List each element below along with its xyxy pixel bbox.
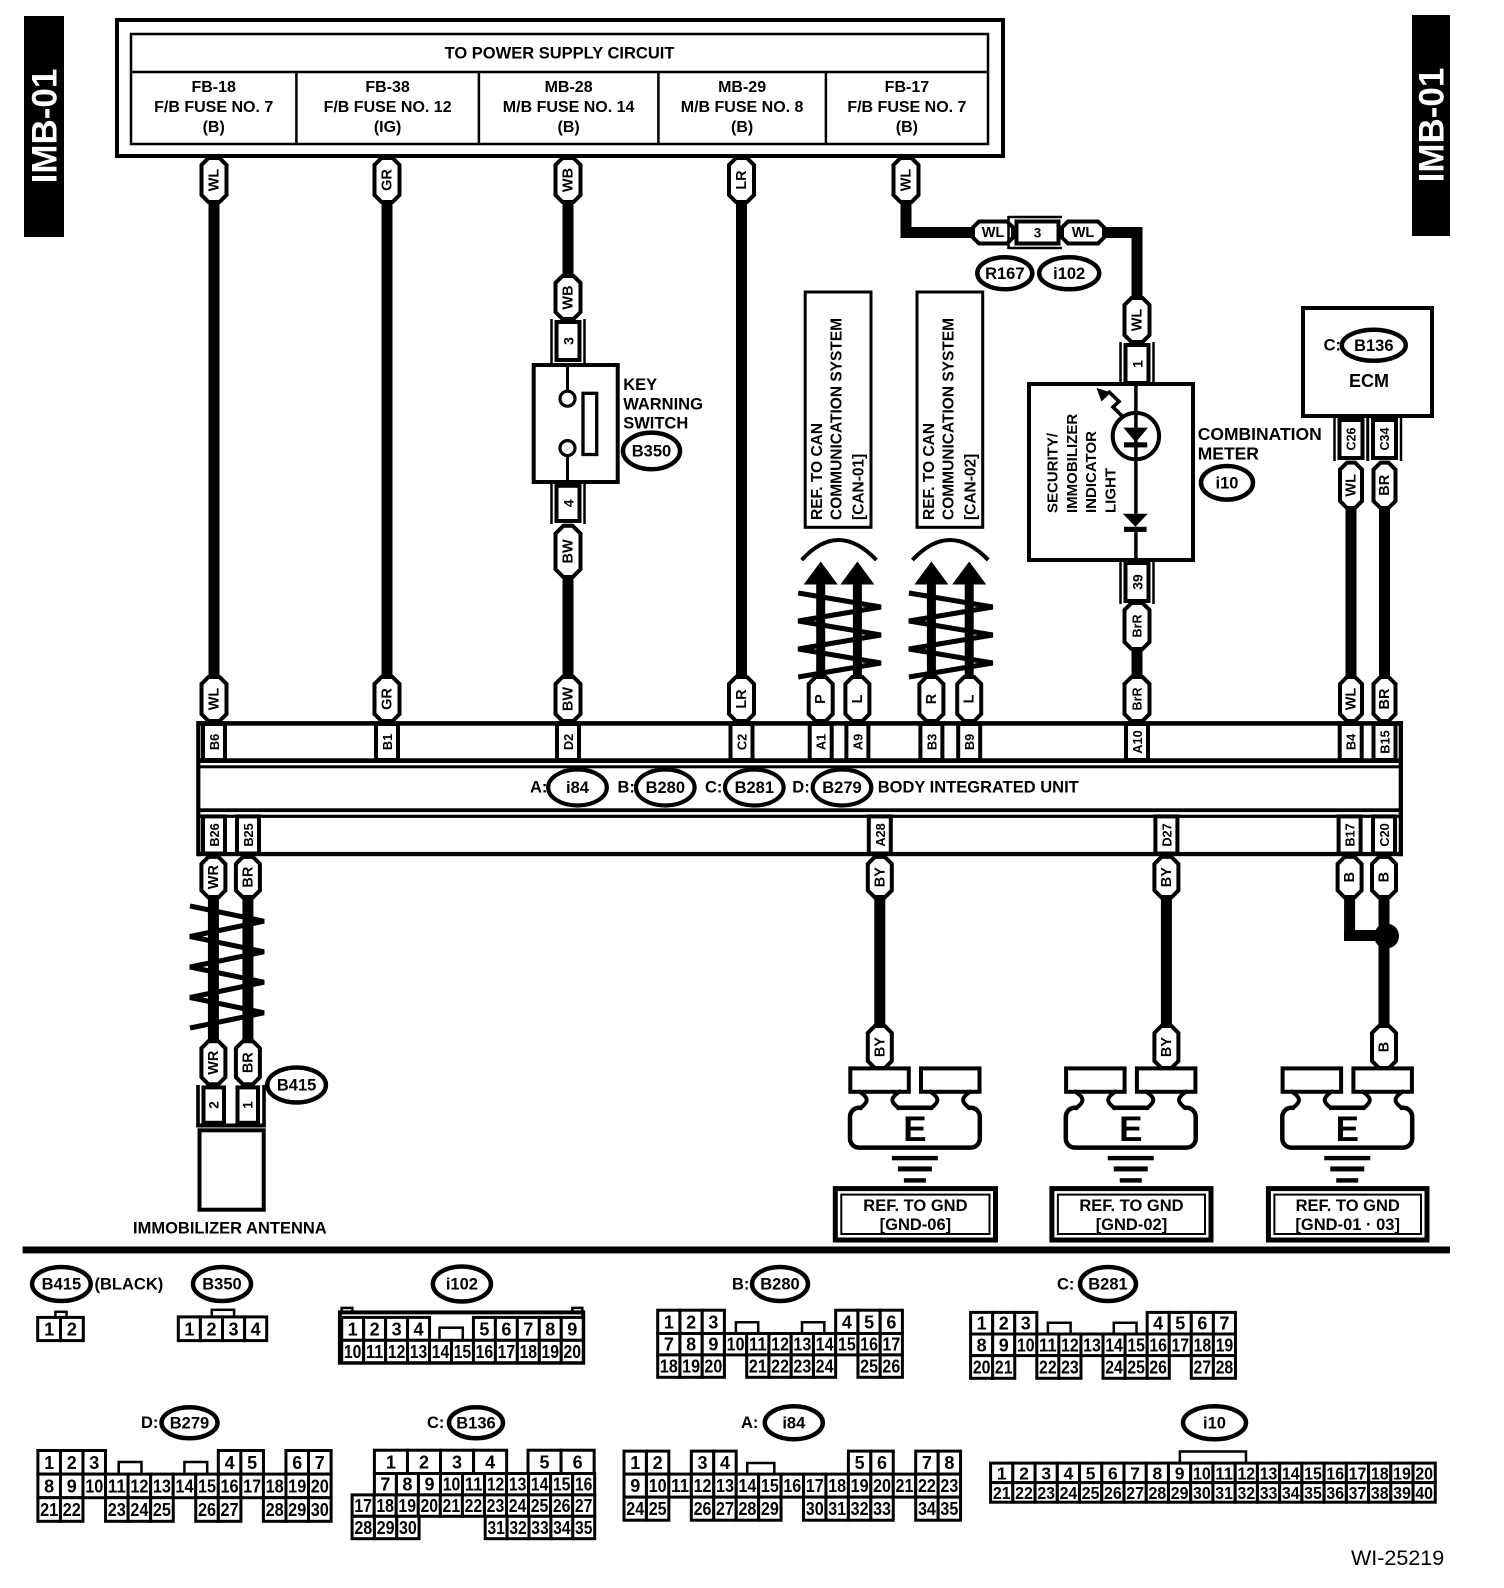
bus pin D27: [1155, 816, 1177, 853]
wire WL down to combination meter: [1132, 227, 1143, 300]
security/immobilizer indicator light box: [1029, 384, 1193, 560]
svg-text:7: 7: [1130, 1463, 1140, 1483]
ECM box: [1303, 308, 1432, 416]
svg-text:9: 9: [1175, 1463, 1185, 1483]
svg-text:IMB-01: IMB-01: [1413, 68, 1452, 183]
wire WB MB-28 to key warning switch: [563, 200, 574, 280]
svg-text:L: L: [850, 694, 866, 703]
ref to CAN box [CAN-01]: [805, 292, 871, 527]
svg-text:4: 4: [1064, 1463, 1074, 1483]
svg-text:SWITCH: SWITCH: [623, 415, 688, 433]
svg-text:10: 10: [344, 1342, 362, 1362]
svg-text:28: 28: [354, 1518, 372, 1538]
connector capsule WL above bus B6: [202, 677, 227, 721]
bus pin B6: [203, 724, 225, 760]
svg-text:[GND-01 · 03]: [GND-01 · 03]: [1295, 1216, 1400, 1234]
svg-text:5: 5: [1086, 1463, 1096, 1483]
svg-text:(B): (B): [203, 119, 225, 136]
svg-text:6: 6: [1197, 1314, 1207, 1334]
svg-text:B15: B15: [1378, 730, 1393, 753]
svg-text:39: 39: [1130, 574, 1146, 590]
svg-text:28: 28: [1149, 1483, 1167, 1503]
svg-text:(IG): (IG): [374, 119, 402, 136]
svg-text:4: 4: [251, 1319, 261, 1339]
bus pin B26: [203, 816, 225, 853]
twisted pair marker [CAN-01]: [798, 593, 881, 677]
svg-text:18: 18: [520, 1342, 538, 1362]
svg-text:30: 30: [399, 1518, 417, 1538]
svg-text:9: 9: [567, 1319, 577, 1339]
svg-text:3: 3: [89, 1453, 99, 1473]
connector B280 pin layout: [658, 1310, 680, 1333]
svg-text:26: 26: [198, 1500, 216, 1520]
svg-text:22: 22: [1039, 1357, 1057, 1377]
svg-text:8: 8: [944, 1453, 954, 1473]
svg-text:WL: WL: [899, 169, 915, 192]
svg-text:[GND-06]: [GND-06]: [880, 1216, 952, 1234]
wire WL FB-18 to body integrated unit: [209, 200, 220, 681]
svg-text:3: 3: [229, 1319, 239, 1339]
svg-text:5: 5: [540, 1452, 550, 1472]
connector capsule WR below bus: [201, 857, 225, 898]
svg-text:1: 1: [241, 1101, 256, 1109]
svg-text:14: 14: [175, 1476, 193, 1496]
connector oval B350: [623, 433, 680, 470]
svg-text:BY: BY: [872, 867, 888, 887]
svg-text:3: 3: [452, 1452, 462, 1472]
connector capsule L above bus (2): [845, 677, 869, 721]
arc above CAN arrows [CAN-02]: [912, 540, 988, 560]
svg-text:C2: C2: [735, 734, 750, 750]
svg-text:20: 20: [704, 1357, 722, 1377]
svg-text:11: 11: [671, 1476, 689, 1496]
wire LR MB-29 to body integrated unit: [736, 200, 747, 681]
svg-text:21: 21: [40, 1500, 58, 1520]
wire WL from inline connector to corner: [1102, 227, 1143, 238]
diode symbol lower: [1123, 514, 1148, 527]
ground symbol hatching: [1324, 1156, 1370, 1160]
LED flash arrow: [1108, 391, 1124, 418]
ground left tab: [1283, 1068, 1342, 1091]
svg-text:WL: WL: [207, 688, 223, 711]
svg-text:15: 15: [838, 1335, 856, 1355]
svg-text:7: 7: [523, 1319, 533, 1339]
svg-text:12: 12: [1237, 1463, 1255, 1483]
svg-text:i84: i84: [782, 1414, 806, 1432]
svg-text:1: 1: [348, 1319, 358, 1339]
svg-text:IMMOBILIZER ANTENNA: IMMOBILIZER ANTENNA: [133, 1220, 327, 1238]
svg-text:13: 13: [793, 1335, 811, 1355]
svg-text:29: 29: [1171, 1483, 1189, 1503]
svg-text:WL: WL: [207, 169, 223, 192]
svg-text:22: 22: [918, 1476, 936, 1496]
ground left tab: [1066, 1068, 1125, 1091]
svg-text:16: 16: [476, 1342, 494, 1362]
svg-text:14: 14: [816, 1335, 834, 1355]
svg-text:R167: R167: [985, 265, 1024, 283]
svg-text:B26: B26: [207, 823, 222, 846]
svg-text:1: 1: [664, 1312, 674, 1332]
svg-text:i10: i10: [1203, 1414, 1226, 1432]
svg-text:38: 38: [1371, 1483, 1389, 1503]
svg-text:1: 1: [977, 1314, 987, 1334]
svg-text:B350: B350: [632, 442, 671, 460]
svg-text:21: 21: [993, 1483, 1011, 1503]
ground right tab: [1353, 1068, 1412, 1091]
svg-text:3: 3: [1041, 1463, 1051, 1483]
wire B horizontal joining segment: [1344, 930, 1390, 941]
svg-text:6: 6: [292, 1453, 302, 1473]
svg-text:B4: B4: [1344, 733, 1359, 750]
svg-text:D:: D:: [141, 1414, 158, 1432]
pin 1 of immobilizer antenna: [238, 1087, 259, 1122]
svg-text:BODY INTEGRATED UNIT: BODY INTEGRATED UNIT: [878, 778, 1079, 796]
svg-text:25: 25: [531, 1496, 549, 1516]
connector capsule LR above bus C2: [729, 677, 754, 721]
connector capsule BY below bus: [868, 857, 892, 898]
svg-text:WI-25219: WI-25219: [1351, 1546, 1444, 1570]
inline connector capsule WL left of R167: [973, 222, 1013, 244]
svg-text:B25: B25: [241, 823, 256, 846]
svg-text:22: 22: [1015, 1483, 1033, 1503]
connector capsule L above bus (2): [957, 677, 981, 721]
svg-text:30: 30: [1193, 1483, 1211, 1503]
svg-text:5: 5: [864, 1312, 874, 1332]
svg-text:B17: B17: [1343, 823, 1358, 846]
svg-text:23: 23: [793, 1357, 811, 1377]
svg-text:BY: BY: [1159, 1037, 1175, 1057]
svg-text:F/B FUSE NO. 7: F/B FUSE NO. 7: [154, 99, 273, 116]
svg-text:BW: BW: [561, 687, 577, 711]
svg-text:3: 3: [708, 1312, 718, 1332]
svg-text:21: 21: [749, 1357, 767, 1377]
ref to CAN box [CAN-02]: [917, 292, 983, 527]
svg-text:GR: GR: [380, 688, 396, 710]
svg-text:16: 16: [783, 1476, 801, 1496]
svg-text:17: 17: [882, 1335, 900, 1355]
svg-text:15: 15: [761, 1476, 779, 1496]
svg-text:TO POWER SUPPLY CIRCUIT: TO POWER SUPPLY CIRCUIT: [445, 45, 675, 63]
svg-text:C:: C:: [705, 778, 722, 796]
svg-text:SECURITY/: SECURITY/: [1045, 432, 1062, 513]
connector capsule BW below switch: [556, 526, 581, 578]
svg-text:REF. TO CAN: REF. TO CAN: [921, 423, 938, 520]
svg-text:2: 2: [207, 1101, 222, 1109]
ground left tab: [850, 1068, 909, 1091]
connector capsule WL below ECM: [1340, 463, 1362, 508]
wire GR FB-38 to body integrated unit: [382, 200, 393, 681]
svg-text:31: 31: [1215, 1483, 1233, 1503]
svg-text:31: 31: [828, 1499, 846, 1519]
svg-text:25: 25: [649, 1499, 667, 1519]
page label banner IMB-01 left: [24, 16, 64, 237]
wire BY D27 to ground GND-02: [1161, 895, 1172, 1028]
wire BrR to body integrated unit: [1132, 647, 1143, 681]
svg-text:BR: BR: [1377, 474, 1393, 495]
svg-text:5: 5: [247, 1453, 257, 1473]
svg-text:25: 25: [153, 1500, 171, 1520]
switch contact lower: [560, 441, 575, 456]
connector capsule B below bus: [1372, 857, 1396, 898]
svg-text:26: 26: [1104, 1483, 1122, 1503]
svg-text:C:: C:: [427, 1414, 444, 1432]
bus pin A1: [810, 724, 832, 760]
svg-text:4: 4: [561, 499, 577, 507]
svg-text:27: 27: [1126, 1483, 1144, 1503]
svg-text:COMBINATION: COMBINATION: [1198, 424, 1322, 444]
svg-text:i84: i84: [566, 779, 590, 797]
svg-text:7: 7: [315, 1453, 325, 1473]
page label banner IMB-01 right: [1412, 15, 1450, 236]
svg-text:A:: A:: [741, 1414, 758, 1432]
connector oval B415 at antenna: [267, 1068, 326, 1103]
svg-text:12: 12: [130, 1476, 148, 1496]
svg-text:10: 10: [85, 1476, 103, 1496]
svg-text:24: 24: [130, 1500, 148, 1520]
svg-text:30: 30: [311, 1500, 329, 1520]
svg-text:2: 2: [1019, 1463, 1029, 1483]
svg-text:20: 20: [563, 1342, 581, 1362]
svg-text:20: 20: [1415, 1463, 1433, 1483]
connector capsule B below bus: [1338, 857, 1362, 898]
connector oval B415 (bottom): [32, 1267, 91, 1301]
svg-text:17: 17: [354, 1496, 372, 1516]
svg-text:13: 13: [509, 1475, 527, 1495]
svg-text:10: 10: [1193, 1463, 1211, 1483]
wire WL horizontal run to R167/i102: [901, 227, 976, 238]
svg-text:8: 8: [1152, 1463, 1162, 1483]
junction dot B wires: [1374, 924, 1399, 949]
svg-text:7: 7: [664, 1335, 674, 1355]
svg-text:[CAN-01]: [CAN-01]: [851, 454, 868, 520]
pin 3 of key warning switch: [550, 319, 553, 363]
svg-text:[CAN-02]: [CAN-02]: [962, 454, 979, 520]
svg-text:WR: WR: [206, 1050, 222, 1075]
svg-text:GR: GR: [380, 169, 396, 191]
svg-text:D27: D27: [1159, 823, 1174, 846]
svg-text:REF. TO CAN: REF. TO CAN: [809, 423, 826, 520]
switch contact upper: [566, 365, 569, 392]
connector capsule BR below bus: [236, 857, 260, 898]
svg-text:B279: B279: [822, 779, 861, 797]
svg-text:33: 33: [873, 1499, 891, 1519]
svg-text:18: 18: [828, 1476, 846, 1496]
svg-text:(B): (B): [896, 119, 918, 136]
svg-text:21: 21: [443, 1496, 461, 1516]
svg-text:11: 11: [366, 1342, 384, 1362]
connector capsule GR above bus B1: [375, 677, 400, 721]
svg-text:WL: WL: [1072, 225, 1095, 241]
bus pin B15: [1374, 724, 1396, 760]
svg-text:28: 28: [266, 1500, 284, 1520]
svg-text:23: 23: [1037, 1483, 1055, 1503]
svg-text:19: 19: [288, 1476, 306, 1496]
connector capsule WL above bus B4: [1340, 677, 1362, 721]
svg-text:MB-28: MB-28: [545, 79, 593, 96]
wire BW switch to body integrated unit: [563, 575, 574, 681]
svg-text:5: 5: [479, 1319, 489, 1339]
svg-text:E: E: [1336, 1110, 1359, 1149]
svg-text:23: 23: [108, 1500, 126, 1520]
svg-text:REF. TO GND: REF. TO GND: [1079, 1197, 1183, 1215]
svg-text:14: 14: [531, 1475, 549, 1495]
pin C34 of ECM: [1367, 417, 1370, 461]
svg-text:11: 11: [1039, 1335, 1057, 1355]
body integrated unit rails: [197, 721, 1403, 726]
svg-text:COMMUNICATION SYSTEM: COMMUNICATION SYSTEM: [829, 318, 846, 520]
LED diode symbol: [1123, 428, 1148, 443]
svg-text:2: 2: [999, 1314, 1009, 1334]
svg-text:7: 7: [922, 1453, 932, 1473]
power supply block outer box: [117, 20, 1003, 156]
svg-text:i102: i102: [446, 1276, 478, 1294]
svg-text:FB-17: FB-17: [885, 79, 930, 96]
svg-text:27: 27: [716, 1499, 734, 1519]
svg-text:14: 14: [1282, 1463, 1300, 1483]
svg-text:M/B FUSE NO. 8: M/B FUSE NO. 8: [681, 99, 804, 116]
svg-text:17: 17: [243, 1476, 261, 1496]
svg-text:1: 1: [997, 1463, 1007, 1483]
svg-text:8: 8: [44, 1476, 54, 1496]
svg-text:25: 25: [860, 1357, 878, 1377]
svg-text:2: 2: [686, 1312, 696, 1332]
svg-text:20: 20: [873, 1476, 891, 1496]
CAN arrow L [CAN-02]: [952, 562, 986, 585]
pin 1 of combination meter: [1119, 342, 1122, 386]
svg-text:B1: B1: [380, 734, 395, 750]
bus pin C20: [1373, 816, 1395, 853]
svg-text:10: 10: [727, 1335, 745, 1355]
svg-text:8: 8: [977, 1335, 987, 1355]
svg-text:(B): (B): [557, 119, 579, 136]
svg-text:METER: METER: [1198, 444, 1260, 464]
svg-text:22: 22: [771, 1357, 789, 1377]
svg-text:C20: C20: [1377, 823, 1392, 846]
connector i102 pin layout: [342, 1308, 353, 1314]
svg-text:D:: D:: [792, 778, 809, 796]
connector capsule BR at antenna: [236, 1041, 260, 1084]
svg-text:A:: A:: [530, 778, 547, 796]
svg-text:26: 26: [553, 1496, 571, 1516]
svg-text:B280: B280: [760, 1276, 799, 1294]
svg-text:WARNING: WARNING: [623, 395, 703, 413]
svg-text:BR: BR: [240, 1052, 256, 1073]
svg-text:9: 9: [708, 1335, 718, 1355]
svg-text:32: 32: [851, 1499, 869, 1519]
connector capsule BW above bus D2: [556, 677, 581, 721]
svg-text:11: 11: [1215, 1463, 1233, 1483]
ref-to-gnd box [GND-06]: [835, 1189, 995, 1240]
svg-text:24: 24: [509, 1496, 527, 1516]
svg-text:FB-18: FB-18: [191, 79, 236, 96]
svg-text:34: 34: [553, 1518, 570, 1538]
bus pin B25: [237, 816, 259, 853]
svg-text:19: 19: [398, 1496, 416, 1516]
svg-text:4: 4: [842, 1312, 852, 1332]
svg-text:1: 1: [630, 1453, 640, 1473]
svg-text:27: 27: [1194, 1357, 1212, 1377]
svg-text:WB: WB: [561, 285, 577, 309]
svg-text:6: 6: [501, 1319, 511, 1339]
svg-text:23: 23: [940, 1476, 958, 1496]
svg-text:C:: C:: [1324, 336, 1341, 354]
svg-text:13: 13: [1260, 1463, 1278, 1483]
svg-text:28: 28: [738, 1499, 756, 1519]
svg-text:36: 36: [1326, 1483, 1344, 1503]
svg-text:33: 33: [1260, 1483, 1278, 1503]
bus pin A10: [1126, 724, 1148, 760]
svg-text:LR: LR: [734, 170, 750, 190]
svg-text:2: 2: [206, 1319, 216, 1339]
svg-text:17: 17: [806, 1476, 824, 1496]
connector oval i102: [1039, 257, 1099, 289]
svg-text:(B): (B): [731, 119, 753, 136]
ref-to-gnd box [GND-02]: [1052, 1189, 1211, 1240]
svg-text:28: 28: [1216, 1357, 1234, 1377]
ground body (E): [850, 1108, 980, 1148]
bus pin C2: [731, 724, 753, 760]
svg-text:E: E: [903, 1110, 926, 1149]
svg-text:WB: WB: [561, 168, 577, 192]
connector oval i10 (combination meter): [1201, 466, 1253, 500]
svg-text:WL: WL: [1130, 309, 1146, 332]
svg-text:15: 15: [553, 1475, 571, 1495]
svg-text:17: 17: [1171, 1335, 1189, 1355]
power supply block inner box: [131, 34, 988, 144]
connector capsule WL (FB-18): [202, 158, 227, 202]
svg-text:F/B FUSE NO. 7: F/B FUSE NO. 7: [847, 99, 966, 116]
connector capsule BrR above bus A10: [1125, 677, 1150, 721]
svg-text:15: 15: [1127, 1335, 1145, 1355]
svg-text:16: 16: [575, 1475, 593, 1495]
svg-text:9: 9: [999, 1335, 1009, 1355]
svg-text:29: 29: [288, 1500, 306, 1520]
svg-text:19: 19: [542, 1342, 560, 1362]
svg-text:14: 14: [432, 1342, 450, 1362]
svg-text:WL: WL: [982, 225, 1005, 241]
svg-text:ECM: ECM: [1349, 371, 1389, 391]
connector oval B350 (bottom): [193, 1267, 251, 1301]
svg-text:13: 13: [1083, 1335, 1101, 1355]
svg-text:23: 23: [487, 1496, 505, 1516]
svg-text:BrR: BrR: [1131, 615, 1145, 638]
pin C26 of ECM: [1333, 417, 1336, 461]
svg-text:3: 3: [392, 1319, 402, 1339]
svg-text:11: 11: [465, 1475, 483, 1495]
svg-text:25: 25: [1082, 1483, 1100, 1503]
svg-text:17: 17: [498, 1342, 516, 1362]
svg-text:31: 31: [487, 1518, 504, 1538]
svg-text:18: 18: [1194, 1335, 1212, 1355]
svg-text:FB-38: FB-38: [365, 79, 410, 96]
svg-text:12: 12: [771, 1335, 789, 1355]
CAN arrow L [CAN-01]: [840, 562, 874, 585]
bus pin B9: [958, 724, 980, 760]
svg-text:18: 18: [266, 1476, 284, 1496]
svg-text:1: 1: [44, 1320, 54, 1340]
svg-text:16: 16: [1149, 1335, 1167, 1355]
connector B281 pin layout: [971, 1312, 993, 1334]
svg-text:B:: B:: [732, 1276, 749, 1294]
connector capsule WR at antenna: [201, 1041, 225, 1084]
svg-text:4: 4: [720, 1453, 730, 1473]
svg-text:REF. TO GND: REF. TO GND: [863, 1197, 967, 1215]
svg-text:27: 27: [221, 1500, 239, 1520]
svg-text:17: 17: [1349, 1463, 1367, 1483]
svg-text:8: 8: [402, 1475, 412, 1495]
svg-text:24: 24: [626, 1499, 644, 1519]
svg-text:11: 11: [749, 1335, 767, 1355]
